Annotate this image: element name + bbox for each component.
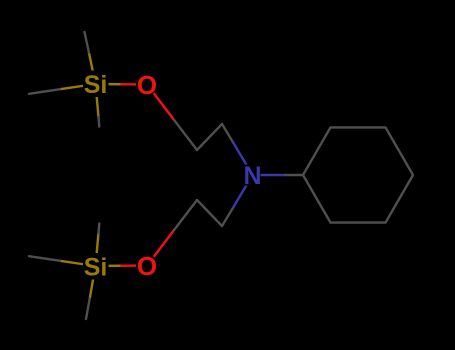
- svg-text:Si: Si: [84, 71, 108, 99]
- svg-text:O: O: [137, 251, 157, 281]
- svg-text:O: O: [137, 70, 157, 100]
- svg-text:N: N: [243, 162, 261, 190]
- svg-text:Si: Si: [84, 254, 108, 282]
